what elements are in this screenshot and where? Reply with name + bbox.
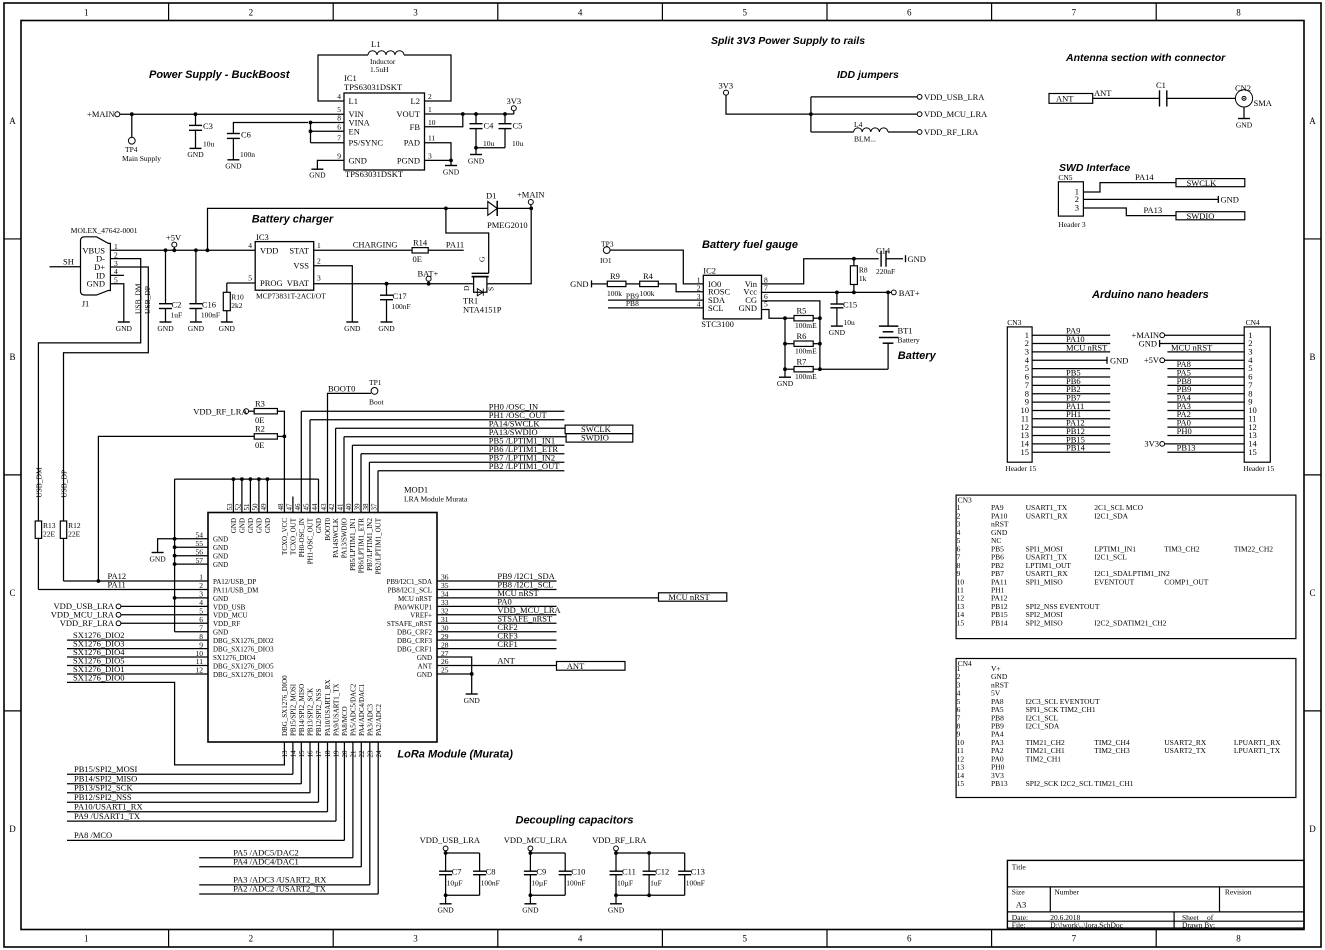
wire R3 to pin48 xyxy=(277,411,284,512)
svg-text:C: C xyxy=(9,588,15,598)
svg-text:46: 46 xyxy=(294,503,302,511)
svg-text:4: 4 xyxy=(337,92,341,101)
svg-text:C13: C13 xyxy=(691,867,705,877)
svg-text:GND: GND xyxy=(315,518,323,533)
svg-text:R4: R4 xyxy=(643,271,654,281)
resistor R4 xyxy=(640,281,659,286)
svg-text:Title: Title xyxy=(1012,863,1027,872)
wire IC2 gnd net xyxy=(762,310,786,319)
svg-text:6: 6 xyxy=(907,934,912,944)
ground below C4 xyxy=(475,148,477,155)
svg-text:C3: C3 xyxy=(203,121,213,131)
svg-text:100mE: 100mE xyxy=(795,321,817,330)
svg-text:48: 48 xyxy=(277,503,285,511)
svg-text:USART2_TX: USART2_TX xyxy=(1164,746,1206,755)
ground CN2 xyxy=(1238,118,1250,120)
svg-text:TP4: TP4 xyxy=(125,145,138,154)
svg-text:1: 1 xyxy=(317,241,321,250)
IC IC1 TPS63031DSKT body xyxy=(344,93,425,170)
svg-text:1uF: 1uF xyxy=(171,311,183,320)
svg-text:100mE: 100mE xyxy=(795,372,817,381)
svg-text:TPS63031DSKT: TPS63031DSKT xyxy=(345,169,404,179)
svg-text:PH1-OSC_OUT: PH1-OSC_OUT xyxy=(307,517,315,564)
svg-text:42: 42 xyxy=(328,503,336,511)
svg-text:A: A xyxy=(1309,116,1316,126)
wire D1 to +MAIN xyxy=(497,207,531,209)
svg-text:22E: 22E xyxy=(43,529,56,538)
wire BOOT0 xyxy=(328,393,372,512)
svg-text:GND: GND xyxy=(219,324,236,333)
svg-text:3V3: 3V3 xyxy=(507,96,522,106)
svg-text:Antenna section with connector: Antenna section with connector xyxy=(1065,52,1226,64)
title block xyxy=(1007,860,1304,928)
svg-text:15: 15 xyxy=(1021,447,1030,457)
svg-text:100k: 100k xyxy=(607,289,622,298)
svg-text:CN5: CN5 xyxy=(1058,173,1072,182)
svg-text:D: D xyxy=(9,824,16,834)
capacitor C5 xyxy=(504,114,506,124)
svg-text:C5: C5 xyxy=(513,121,523,131)
wire MCU_nRST net xyxy=(437,597,659,599)
svg-text:VDD_MCU_LRA: VDD_MCU_LRA xyxy=(504,835,568,845)
svg-text:C1: C1 xyxy=(1156,80,1166,90)
svg-text:49: 49 xyxy=(260,503,268,511)
resistor R10 xyxy=(227,282,255,284)
svg-text:Revision: Revision xyxy=(1225,887,1252,896)
wires module top nets xyxy=(300,411,302,512)
svg-text:SMA: SMA xyxy=(1254,98,1273,108)
terminal VDD_USB_LRA xyxy=(917,95,922,100)
svg-text:STC3100: STC3100 xyxy=(701,319,734,329)
svg-text:C7: C7 xyxy=(452,867,462,877)
terminal VDD_RF_LRA xyxy=(917,130,922,135)
wire VBUS rail xyxy=(110,249,255,251)
capacitor C4 xyxy=(475,114,477,124)
svg-text:PH0-OSC_IN: PH0-OSC_IN xyxy=(298,518,306,557)
svg-text:0E: 0E xyxy=(413,254,422,264)
svg-text:8: 8 xyxy=(337,114,341,123)
svg-text:GND: GND xyxy=(468,157,485,166)
svg-text:7: 7 xyxy=(1072,8,1077,18)
svg-text:GND: GND xyxy=(1139,338,1157,348)
svg-text:PROG: PROG xyxy=(260,278,283,288)
svg-text:57: 57 xyxy=(196,556,204,565)
svg-text:100k: 100k xyxy=(640,289,655,298)
svg-text:ANT: ANT xyxy=(1094,88,1112,98)
svg-text:GND: GND xyxy=(225,162,242,171)
capacitor C14 xyxy=(880,251,882,267)
wire gate feed xyxy=(446,208,489,273)
table CN3 pin functions xyxy=(956,495,1296,638)
IC IC2 STC3100 body xyxy=(703,275,761,319)
wire VINA EN PS/SYNC xyxy=(311,122,345,124)
wire VOUT 3V3 xyxy=(425,113,514,115)
svg-text:ANT: ANT xyxy=(497,656,515,666)
wire CN5 pin1 PA14 xyxy=(1083,183,1176,192)
resistor R3 xyxy=(254,409,277,414)
port ANT (module) xyxy=(557,662,626,671)
svg-text:R8: R8 xyxy=(859,265,868,274)
net label PA11 (charger) xyxy=(428,249,464,251)
svg-text:100mE: 100mE xyxy=(795,346,817,355)
svg-text:PA11/USB_DM: PA11/USB_DM xyxy=(213,586,259,594)
svg-text:1: 1 xyxy=(84,934,89,944)
svg-text:NTA4151P: NTA4151P xyxy=(463,305,502,315)
svg-text:PB9/I2C1_SDA: PB9/I2C1_SDA xyxy=(386,578,432,586)
svg-text:VDD_MCU_LRA: VDD_MCU_LRA xyxy=(924,109,988,119)
svg-text:PA0/WKUP1: PA0/WKUP1 xyxy=(394,603,432,611)
svg-text:I2C1_SDA: I2C1_SDA xyxy=(1094,511,1128,520)
svg-text:SX1276_DIO4: SX1276_DIO4 xyxy=(213,654,256,662)
svg-text:3: 3 xyxy=(317,274,321,283)
svg-text:CN2: CN2 xyxy=(1235,83,1251,93)
svg-text:GND: GND xyxy=(87,279,105,289)
svg-text:2k2: 2k2 xyxy=(231,301,243,310)
ground below C3 xyxy=(190,147,202,149)
svg-text:GND: GND xyxy=(739,303,757,313)
svg-text:1.5uH: 1.5uH xyxy=(370,65,389,74)
svg-text:GND: GND xyxy=(264,518,272,533)
wire C14 gnd xyxy=(886,258,903,260)
svg-text:PA11: PA11 xyxy=(446,239,464,249)
svg-text:C11: C11 xyxy=(622,867,636,877)
svg-text:GND: GND xyxy=(1236,121,1253,130)
svg-text:PA8 /MCO: PA8 /MCO xyxy=(74,830,112,840)
svg-text:DBG_SX1276_DIO3: DBG_SX1276_DIO3 xyxy=(213,646,274,654)
svg-text:FB: FB xyxy=(410,122,421,132)
svg-text:0E: 0E xyxy=(255,440,264,450)
svg-text:Decoupling capacitors: Decoupling capacitors xyxy=(516,815,634,827)
wire CN5 pin3 PA13 xyxy=(1083,208,1176,216)
svg-text:47: 47 xyxy=(285,503,293,511)
svg-text:Main Supply: Main Supply xyxy=(122,154,161,163)
connector CN2 SMA xyxy=(1235,90,1252,107)
svg-text:GND: GND xyxy=(149,555,166,564)
svg-text:SH: SH xyxy=(63,257,74,267)
svg-text:GND: GND xyxy=(1110,355,1128,365)
svg-text:10u: 10u xyxy=(844,318,856,327)
svg-text:VDD_RF_LRA: VDD_RF_LRA xyxy=(924,127,979,137)
ground C2 xyxy=(160,321,172,323)
svg-text:GND: GND xyxy=(608,905,625,914)
ground R10 xyxy=(221,321,233,323)
svg-text:Split 3V3 Power Supply to rail: Split 3V3 Power Supply to rails xyxy=(711,35,865,47)
svg-text:GND: GND xyxy=(570,279,588,289)
svg-text:TCXO_OUT: TCXO_OUT xyxy=(290,517,298,555)
svg-text:50: 50 xyxy=(251,503,259,511)
svg-text:8: 8 xyxy=(1236,8,1241,18)
svg-text:USB_DM: USB_DM xyxy=(134,283,143,314)
svg-text:22E: 22E xyxy=(68,529,81,538)
svg-text:Size: Size xyxy=(1012,887,1026,896)
svg-text:C12: C12 xyxy=(655,867,669,877)
svg-text:STSAFE_nRST: STSAFE_nRST xyxy=(387,620,433,628)
svg-text:TPS63031DSKT: TPS63031DSKT xyxy=(344,82,403,92)
wires module right nets xyxy=(437,580,557,582)
svg-text:100nF: 100nF xyxy=(392,302,411,311)
svg-text:LPUART1_TX: LPUART1_TX xyxy=(1234,746,1281,755)
svg-text:DBG_SX1276_DIO5: DBG_SX1276_DIO5 xyxy=(213,662,274,670)
svg-text:USB_DP: USB_DP xyxy=(60,470,69,498)
svg-text:GND: GND xyxy=(378,324,395,333)
wire D- to USB_DM xyxy=(38,259,140,521)
port ANT xyxy=(1049,94,1093,104)
svg-text:PA12/USB_DP: PA12/USB_DP xyxy=(213,578,256,586)
svg-text:R6: R6 xyxy=(797,331,807,341)
wire to L4 xyxy=(811,131,854,133)
svg-text:PB14: PB14 xyxy=(991,618,1008,627)
svg-text:CHARGING: CHARGING xyxy=(353,239,398,249)
svg-text:39: 39 xyxy=(354,503,362,511)
wire +5V to D1 xyxy=(208,208,488,250)
svg-text:100nF: 100nF xyxy=(686,878,705,887)
port SWDIO (module) xyxy=(566,434,633,443)
svg-text:DBG_CRF1: DBG_CRF1 xyxy=(397,646,433,654)
svg-text:+5V: +5V xyxy=(166,233,182,243)
svg-text:SX1276_DIO0: SX1276_DIO0 xyxy=(73,672,124,682)
svg-text:MCU nRST: MCU nRST xyxy=(668,592,710,602)
svg-text:Battery fuel gauge: Battery fuel gauge xyxy=(702,239,798,251)
svg-text:PB13: PB13 xyxy=(1177,443,1196,453)
svg-text:TP1: TP1 xyxy=(369,378,382,387)
svg-text:TIM2_CH1: TIM2_CH1 xyxy=(1026,754,1062,763)
svg-text:G: G xyxy=(478,256,487,262)
svg-text:ANT: ANT xyxy=(567,661,585,671)
svg-text:Header 15: Header 15 xyxy=(1243,464,1274,473)
svg-text:VDD_RF: VDD_RF xyxy=(213,620,240,628)
svg-text:PA2 /ADC2 /USART2_TX: PA2 /ADC2 /USART2_TX xyxy=(233,884,326,894)
svg-text:PA9 /USART1_TX: PA9 /USART1_TX xyxy=(74,811,140,821)
svg-text:38: 38 xyxy=(362,503,370,511)
svg-text:PS/SYNC: PS/SYNC xyxy=(349,138,384,148)
ground C15 xyxy=(831,325,843,327)
svg-text:PA14: PA14 xyxy=(1135,172,1154,182)
svg-text:BOOT0: BOOT0 xyxy=(328,383,355,393)
svg-text:10: 10 xyxy=(428,118,436,127)
ground VSS xyxy=(346,321,358,323)
wire R2 to PA12 xyxy=(98,436,254,581)
port MCU_nRST xyxy=(659,593,727,601)
svg-text:C9: C9 xyxy=(536,867,546,877)
svg-text:PB12/SPI2_NSS: PB12/SPI2_NSS xyxy=(315,688,323,736)
wire PA11 row xyxy=(38,588,208,590)
wire L1 left xyxy=(318,55,368,101)
svg-text:25: 25 xyxy=(441,666,449,675)
svg-text:VREF+: VREF+ xyxy=(410,612,432,620)
svg-text:10µF: 10µF xyxy=(617,878,633,887)
svg-text:A: A xyxy=(9,116,16,126)
capacitor C3 xyxy=(195,114,197,125)
svg-text:GND: GND xyxy=(230,518,238,533)
svg-text:2: 2 xyxy=(428,92,432,101)
svg-text:R5: R5 xyxy=(797,306,807,316)
svg-text:1: 1 xyxy=(428,105,432,114)
svg-text:10u: 10u xyxy=(512,139,524,148)
svg-text:GND: GND xyxy=(443,168,460,177)
svg-text:4: 4 xyxy=(578,8,583,18)
svg-text:TCXO_VCC: TCXO_VCC xyxy=(281,518,289,555)
terminal 3V3 (IC1 out) xyxy=(511,106,516,111)
svg-text:2: 2 xyxy=(249,934,254,944)
svg-text:VDD_RF_LRA: VDD_RF_LRA xyxy=(193,406,248,416)
svg-text:GND: GND xyxy=(1221,195,1239,205)
wire D+ to USB_DP xyxy=(64,267,149,521)
wire R9 R4 xyxy=(626,283,640,285)
svg-text:STAT: STAT xyxy=(289,245,309,255)
svg-text:DBG_CRF2: DBG_CRF2 xyxy=(397,629,433,637)
wire IC1 GND pin9 xyxy=(317,160,344,169)
svg-text:R2: R2 xyxy=(255,424,265,434)
svg-text:GND: GND xyxy=(213,595,228,603)
svg-text:PA8/MCO: PA8/MCO xyxy=(341,706,349,736)
svg-text:PB5/LPTIM1_IN1: PB5/LPTIM1_IN1 xyxy=(349,518,357,571)
svg-text:CRF1: CRF1 xyxy=(497,639,517,649)
svg-text:IDD jumpers: IDD jumpers xyxy=(837,69,899,81)
svg-text:R3: R3 xyxy=(255,398,265,408)
svg-text:GND: GND xyxy=(349,155,367,165)
wire module gnd right xyxy=(437,657,472,694)
svg-text:PA14SWCLK: PA14SWCLK xyxy=(332,518,340,558)
transistor TR1 xyxy=(472,272,489,274)
svg-text:7: 7 xyxy=(1072,934,1077,944)
svg-text:I2C1_SDA: I2C1_SDA xyxy=(1026,722,1060,731)
svg-text:R9: R9 xyxy=(610,271,620,281)
svg-text:PMEG2010: PMEG2010 xyxy=(487,220,528,230)
wire CN5 pin2 gnd xyxy=(1083,198,1218,200)
capacitor C2 xyxy=(165,250,167,303)
ground fuel stack xyxy=(779,376,791,378)
svg-text:PA13: PA13 xyxy=(1144,205,1163,215)
port SWDIO xyxy=(1176,212,1245,220)
svg-text:PB14/SPI2_MISO: PB14/SPI2_MISO xyxy=(298,684,306,736)
IC IC3 MCP73831 body xyxy=(255,242,314,291)
svg-text:3V3: 3V3 xyxy=(719,81,734,91)
svg-text:PA4 /ADC4/DAC1: PA4 /ADC4/DAC1 xyxy=(233,857,299,867)
capacitor C17 xyxy=(386,284,388,296)
svg-text:GND: GND xyxy=(417,654,432,662)
svg-text:I2C1_SCL: I2C1_SCL xyxy=(1094,553,1127,562)
svg-text:10µF: 10µF xyxy=(531,878,547,887)
svg-text:Arduino nano headers: Arduino nano headers xyxy=(1091,289,1209,301)
svg-text:15: 15 xyxy=(1248,447,1257,457)
svg-text:VDD_MCU: VDD_MCU xyxy=(213,612,248,620)
svg-text:CN3: CN3 xyxy=(1007,318,1021,327)
svg-text:GND: GND xyxy=(522,905,539,914)
svg-text:GND: GND xyxy=(213,553,228,561)
svg-text:1uF: 1uF xyxy=(650,878,662,887)
svg-text:DBG_SX1276_DIO2: DBG_SX1276_DIO2 xyxy=(213,637,274,645)
svg-text:5: 5 xyxy=(742,8,747,18)
svg-text:PA2/ADC2: PA2/ADC2 xyxy=(375,703,383,736)
svg-text:PB13: PB13 xyxy=(991,779,1008,788)
svg-text:CN4: CN4 xyxy=(1246,318,1260,327)
svg-text:PA4/ADC4/DAC1: PA4/ADC4/DAC1 xyxy=(358,683,366,736)
svg-text:ANT: ANT xyxy=(418,662,433,670)
wire Vin to C14 xyxy=(762,259,879,284)
svg-text:GND: GND xyxy=(187,150,204,159)
svg-text:3: 3 xyxy=(413,8,418,18)
svg-text:12: 12 xyxy=(196,666,204,675)
wire CG net xyxy=(762,301,820,369)
svg-text:BOOT0: BOOT0 xyxy=(324,518,332,541)
svg-text:IC2: IC2 xyxy=(703,266,716,276)
svg-text:MCU nRST: MCU nRST xyxy=(398,595,433,603)
svg-text:PB8/I2C1_SCL: PB8/I2C1_SCL xyxy=(388,586,432,594)
svg-text:51: 51 xyxy=(243,503,251,511)
resistor R7 xyxy=(785,368,794,370)
svg-text:IC3: IC3 xyxy=(256,232,269,242)
svg-text:PA9/USART1_TX: PA9/USART1_TX xyxy=(333,683,341,736)
svg-text:100nF: 100nF xyxy=(201,311,220,320)
svg-text:L2: L2 xyxy=(411,96,420,106)
resistor R13 xyxy=(35,521,41,538)
port SWCLK (module) xyxy=(565,425,633,434)
svg-text:VDD_USB_LRA: VDD_USB_LRA xyxy=(420,835,481,845)
svg-text:SWCLK: SWCLK xyxy=(1187,178,1218,188)
svg-text:L1: L1 xyxy=(371,39,380,49)
wire GND bus above module xyxy=(175,478,319,480)
svg-text:4: 4 xyxy=(248,241,252,250)
svg-text:BAT+: BAT+ xyxy=(418,269,439,279)
svg-text:43: 43 xyxy=(320,503,328,511)
svg-text:1: 1 xyxy=(84,8,89,18)
wire CN2 gnd xyxy=(1243,107,1245,119)
svg-text:B: B xyxy=(1309,352,1315,362)
wire Vcc BAT+ xyxy=(762,291,892,293)
svg-text:5: 5 xyxy=(742,934,747,944)
svg-text:6: 6 xyxy=(907,8,912,18)
svg-text:SPI2_MISO: SPI2_MISO xyxy=(1026,618,1064,627)
svg-text:MOD1: MOD1 xyxy=(404,485,428,495)
svg-text:PB13/SPI2_SCK: PB13/SPI2_SCK xyxy=(74,783,133,793)
svg-text:GND: GND xyxy=(213,536,228,544)
svg-text:C8: C8 xyxy=(486,867,496,877)
svg-text:+MAIN: +MAIN xyxy=(517,190,544,200)
svg-text:8: 8 xyxy=(1236,934,1241,944)
wire C1 to CN2 xyxy=(1167,97,1236,99)
svg-text:C4: C4 xyxy=(484,121,495,131)
resistor R9 xyxy=(607,281,626,286)
svg-text:37: 37 xyxy=(371,503,379,511)
resistor R6 xyxy=(785,343,794,345)
svg-text:SPI1_MISO: SPI1_MISO xyxy=(1026,577,1064,586)
svg-text:C6: C6 xyxy=(241,130,251,140)
svg-text:D: D xyxy=(462,285,471,291)
svg-text:GND: GND xyxy=(777,379,794,388)
ground C17 xyxy=(381,321,393,323)
svg-text:53: 53 xyxy=(226,503,234,511)
capacitor C15 xyxy=(836,292,838,304)
svg-text:+MAIN: +MAIN xyxy=(87,109,114,119)
svg-text:15: 15 xyxy=(957,779,965,788)
svg-text:D1: D1 xyxy=(486,191,496,201)
svg-text:Power Supply - BuckBoost: Power Supply - BuckBoost xyxy=(149,69,291,81)
wire R2 to pin48 xyxy=(277,435,284,437)
ground IC1 PGND xyxy=(450,160,452,165)
svg-text:PB2 /LPTIM1_OUT: PB2 /LPTIM1_OUT xyxy=(489,461,560,471)
svg-text:SPI2_SCK I2C2_SCL TIM21_CH1: SPI2_SCK I2C2_SCL TIM21_CH1 xyxy=(1026,779,1134,788)
svg-text:EN: EN xyxy=(349,126,360,136)
svg-text:BLM...: BLM... xyxy=(854,135,876,144)
ground J1 xyxy=(118,321,130,323)
svg-text:L1: L1 xyxy=(349,96,358,106)
svg-text:EVENTOUT: EVENTOUT xyxy=(1094,577,1134,586)
wire FB xyxy=(425,114,463,127)
ground module right xyxy=(466,693,478,695)
svg-text:10u: 10u xyxy=(483,139,495,148)
wire TP3 to IO0 xyxy=(610,250,703,284)
svg-text:1k: 1k xyxy=(859,274,867,283)
